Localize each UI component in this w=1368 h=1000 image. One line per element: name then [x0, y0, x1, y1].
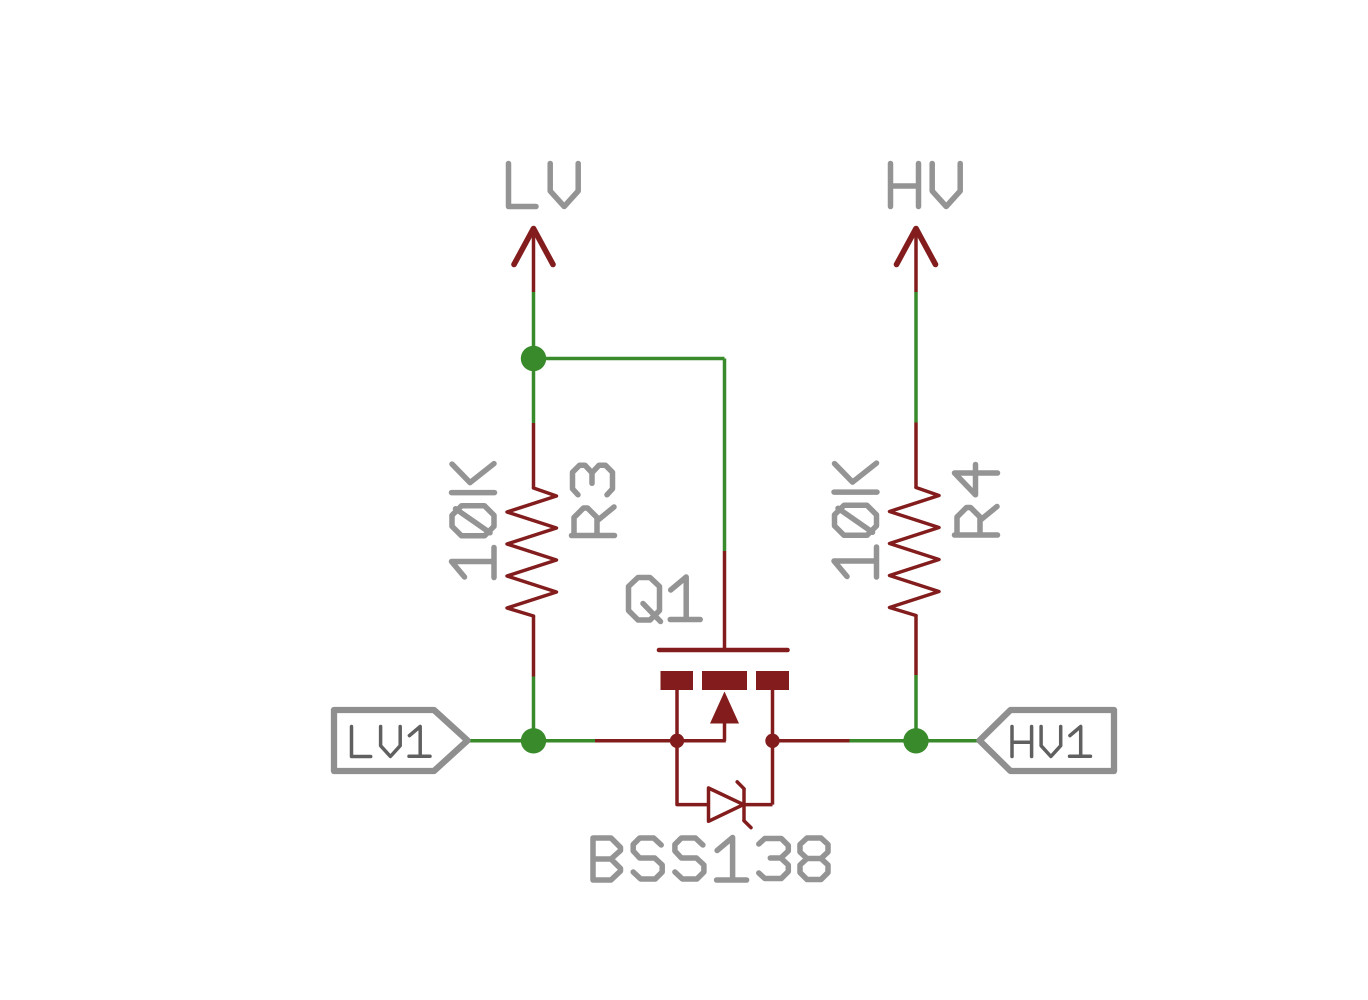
junction source node	[670, 734, 684, 748]
wire node to HV1	[850, 739, 981, 743]
net label text LV	[509, 164, 579, 207]
text Q1 (name)	[629, 577, 701, 622]
text 10K (R3 value)	[452, 464, 495, 578]
transistor Q1 source lead	[675, 690, 679, 741]
body diode D1	[677, 741, 709, 805]
junction HV1 node	[903, 728, 928, 753]
junction drain node	[765, 734, 779, 748]
transistor Q1 gate pin	[723, 551, 727, 650]
transistor Q1 drain pin	[773, 739, 850, 743]
wire LV1 to node	[467, 739, 595, 743]
transistor Q1 gate bar	[659, 648, 788, 653]
wire gate vertical	[723, 359, 727, 552]
wire source-body link	[677, 739, 726, 743]
wire LV to gate horizontal	[534, 357, 725, 361]
text HV1	[1012, 727, 1091, 757]
wire HV vertical	[914, 292, 918, 423]
transistor Q1 drain lead	[771, 690, 775, 741]
text R3 (name)	[572, 465, 615, 535]
junction LV top	[521, 346, 546, 371]
text R4 (name)	[955, 465, 998, 536]
resistor R3	[532, 423, 536, 488]
text BSS138 (value)	[593, 838, 828, 881]
text LV1	[352, 727, 431, 757]
wire R4 bottom to node	[914, 675, 918, 741]
port flag LV1	[334, 710, 468, 771]
transistor Q1 channel plates	[661, 671, 694, 690]
transistor Q1 source pin	[595, 739, 677, 743]
wire LV vertical	[532, 292, 536, 423]
net label text HV	[891, 164, 961, 207]
port flag HV1	[980, 710, 1115, 771]
transistor Q1 body arrow	[710, 692, 739, 724]
supply symbol HV (arrow)	[897, 229, 936, 265]
text 10K (R4 value)	[834, 463, 877, 577]
junction LV1 node	[521, 728, 546, 753]
supply symbol LV (arrow)	[514, 229, 553, 265]
resistor R4	[914, 423, 918, 488]
wire R3 bottom to node	[532, 677, 536, 741]
